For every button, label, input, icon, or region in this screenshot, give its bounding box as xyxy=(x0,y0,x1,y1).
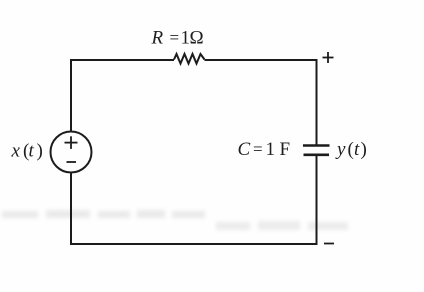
wire: left vertical lower segment xyxy=(70,172,72,245)
wire: right vertical upper segment xyxy=(316,59,318,145)
svg-text:(: ( xyxy=(348,139,354,160)
capacitor C bottom plate xyxy=(304,154,330,157)
svg-text:Ω: Ω xyxy=(190,28,204,49)
svg-text:): ) xyxy=(361,139,367,160)
plus polarity mark xyxy=(65,136,78,149)
resistor R zigzag xyxy=(174,54,205,64)
capacitor C top plate xyxy=(303,144,330,147)
svg-text:F: F xyxy=(280,139,291,160)
svg-text:x: x xyxy=(11,141,21,162)
svg-text:R: R xyxy=(151,28,164,49)
wire: bottom horizontal xyxy=(71,243,318,245)
minus polarity mark xyxy=(67,161,77,163)
wire: right vertical lower segment xyxy=(316,155,318,245)
svg-text:=: = xyxy=(253,140,263,159)
node + terminal top right xyxy=(323,52,334,63)
svg-text:): ) xyxy=(37,141,43,162)
label x(t) xyxy=(11,141,43,162)
wire: top-right horizontal segment xyxy=(205,59,318,61)
wire: left vertical upper segment xyxy=(70,59,72,132)
wire: top-left horizontal segment xyxy=(71,59,174,61)
node - terminal bottom right xyxy=(324,243,334,245)
label C = 1 F xyxy=(238,139,291,160)
label R = 1 ohm xyxy=(151,28,204,49)
svg-text:t: t xyxy=(354,139,360,160)
voltage source x(t) xyxy=(51,132,92,173)
svg-text:=: = xyxy=(170,28,180,47)
label y(t) xyxy=(335,139,367,160)
svg-text:t: t xyxy=(29,141,35,162)
svg-text:C: C xyxy=(238,139,251,160)
svg-text:y: y xyxy=(335,139,346,160)
svg-text:1: 1 xyxy=(266,139,276,160)
